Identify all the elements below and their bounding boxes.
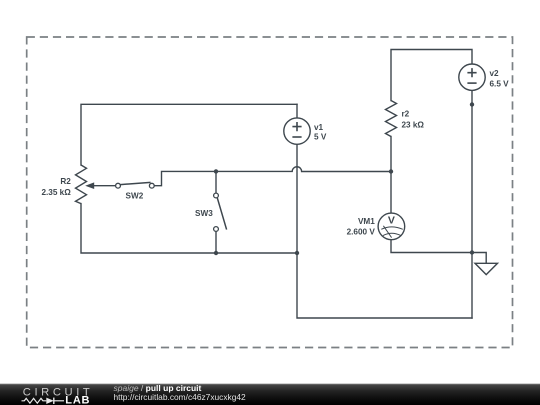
svg-text:SW2: SW2	[126, 191, 144, 200]
svg-text:r2: r2	[402, 110, 410, 119]
wire: VM1 top lead	[390, 172, 392, 214]
wire: v2 bottom lead	[471, 90, 473, 104]
node: ground junction	[470, 250, 474, 254]
ground	[475, 263, 498, 274]
schematic dashed boundary (decorative)	[27, 37, 513, 348]
node: v2 bottom junction	[470, 102, 474, 106]
voltage source v2	[459, 64, 509, 90]
svg-text:LAB: LAB	[65, 394, 90, 405]
wire: SW3 top lead	[215, 171, 217, 193]
svg-text:V: V	[388, 215, 395, 227]
svg-text:5 V: 5 V	[314, 133, 327, 142]
wire: bottom return (v1 ground to right rail)	[297, 253, 472, 318]
CircuitLab logo	[22, 386, 94, 405]
wire: right vertical rail (v2- down to bottom)	[471, 105, 473, 319]
voltmeter VM1	[347, 213, 405, 240]
wire: SW3 bottom lead	[215, 231, 217, 253]
switch SW3 (open)	[195, 193, 227, 231]
wire: VM1 bottom lead to ground rail	[391, 240, 472, 253]
switch SW2 (closed)	[116, 182, 155, 200]
svg-text:R2: R2	[60, 177, 71, 186]
footer bar	[0, 384, 540, 405]
wire: r2 bottom lead to node	[390, 137, 392, 172]
svg-text:SW3: SW3	[195, 209, 213, 218]
svg-text:http://circuitlab.com/c46z7xuc: http://circuitlab.com/c46z7xucxkg42	[114, 392, 247, 402]
wire: v1 bottom lead down to ground rail	[296, 144, 298, 253]
svg-text:v2: v2	[490, 69, 500, 78]
node: r2 / VM1 junction	[389, 169, 393, 173]
resistor r2	[386, 101, 425, 137]
svg-text:6.5 V: 6.5 V	[490, 79, 510, 88]
svg-text:v1: v1	[314, 123, 324, 132]
potentiometer R2	[41, 165, 115, 204]
node: v1 ground junction	[295, 251, 299, 255]
node: SW3 bottom junction	[214, 251, 218, 255]
svg-text:2.600 V: 2.600 V	[347, 228, 376, 237]
svg-text:2.35 kΩ: 2.35 kΩ	[41, 188, 71, 197]
wire: top-left net (v1+ to R2 top)	[81, 104, 297, 165]
wire: top-right net (v2+ to r2 top)	[391, 50, 472, 101]
wire: output node run with hop over v1 wire	[216, 167, 391, 172]
node: SW3 top junction	[214, 169, 218, 173]
svg-text:23 kΩ: 23 kΩ	[402, 121, 425, 130]
wire: ground stub	[472, 253, 486, 264]
wire: v1 top lead	[296, 104, 298, 118]
svg-text:VM1: VM1	[358, 217, 375, 226]
wire: R2 bottom to ground rail	[81, 204, 297, 253]
voltage source v1	[284, 118, 327, 144]
wire: SW2 right terminal to output node	[154, 171, 216, 185]
